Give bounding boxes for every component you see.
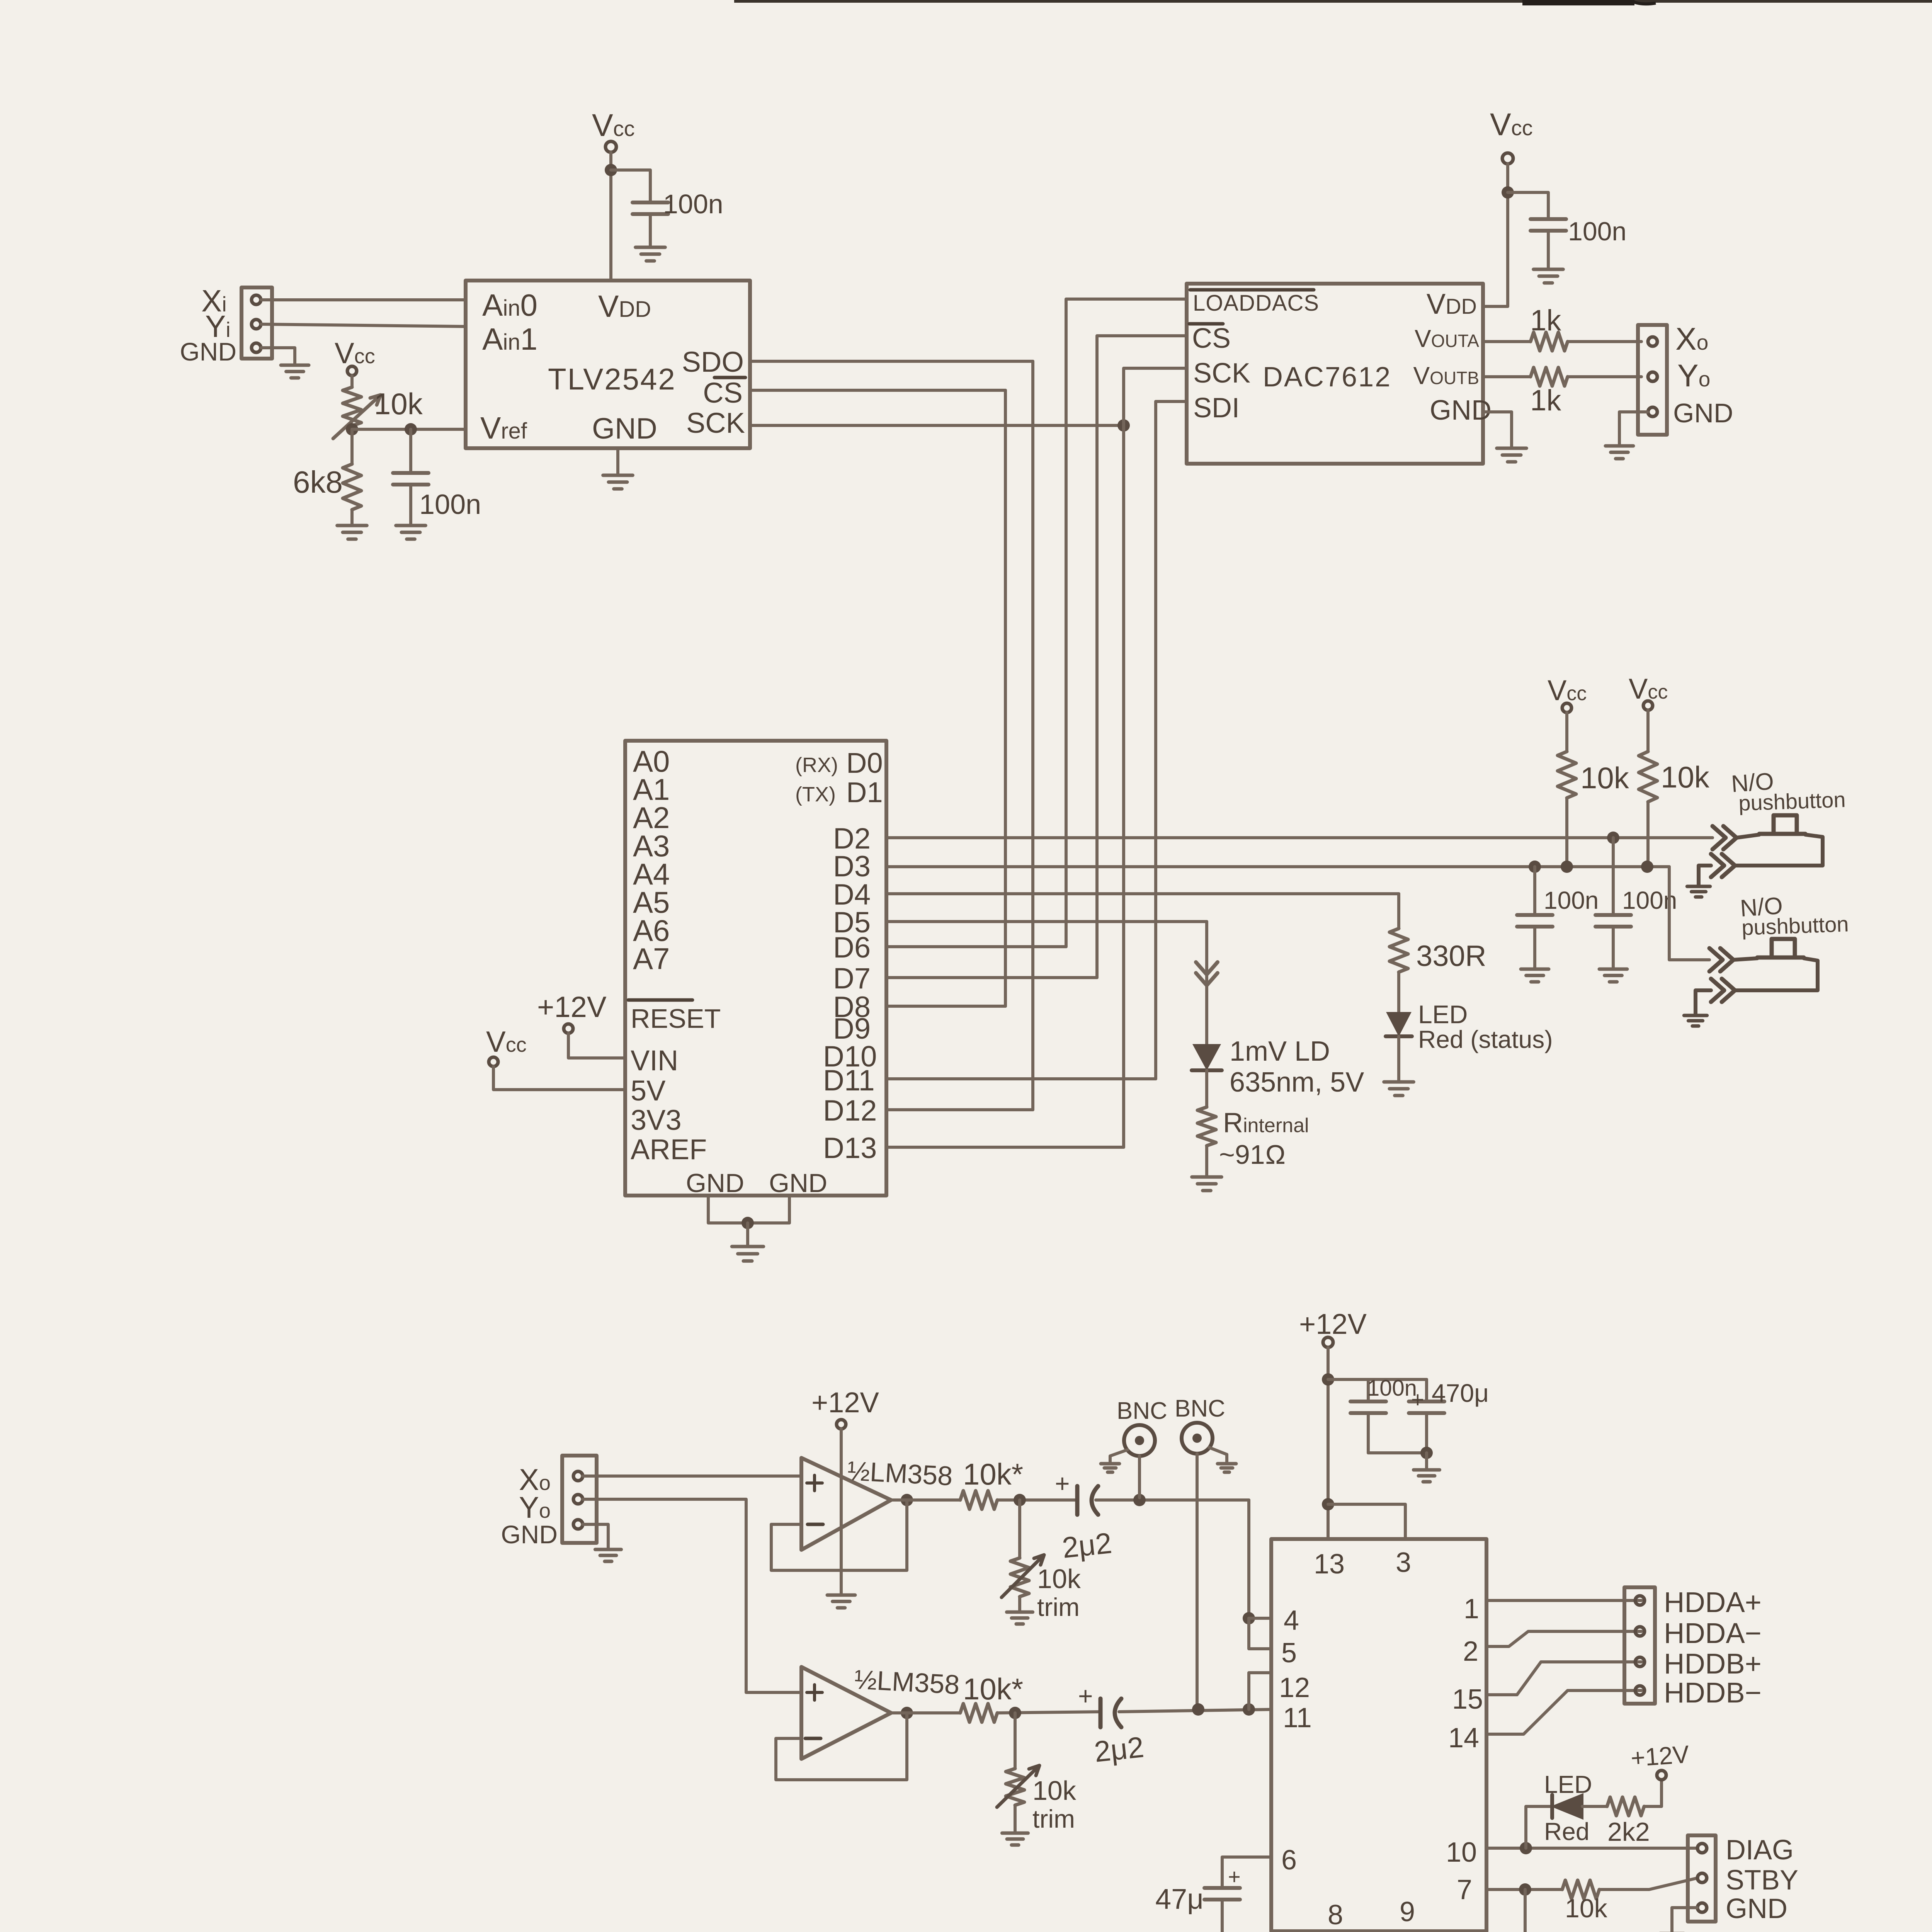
svg-text:100n: 100n	[1367, 1376, 1417, 1401]
wire U2 CS to D7	[1097, 336, 1187, 978]
svg-text:10k*: 10k*	[963, 1672, 1023, 1706]
svg-text:9: 9	[1400, 1896, 1415, 1927]
svg-text:D12: D12	[823, 1094, 877, 1127]
svg-text:STBY: STBY	[1726, 1865, 1798, 1896]
connector J2 Xo/Yo/GND out	[1638, 325, 1667, 435]
svg-text:14: 14	[1448, 1723, 1479, 1753]
wire D4 vertical	[1397, 894, 1400, 929]
capacitor C9 470u	[1425, 1379, 1428, 1401]
capacitor C6 2u2	[1075, 1486, 1080, 1515]
wire pin2 to HDDA-	[1486, 1631, 1641, 1646]
ground J2	[1605, 446, 1633, 459]
svg-text:trim: trim	[1037, 1593, 1080, 1621]
node opamp1 out	[901, 1494, 913, 1506]
connector arrow S2 return	[1711, 979, 1735, 1002]
svg-text:+: +	[1228, 1864, 1241, 1889]
svg-text:100n: 100n	[663, 189, 723, 219]
wire pins 8 9 ground	[1333, 1931, 1404, 1932]
wire U1 SCK to junction	[750, 424, 1124, 427]
ground caps	[1413, 1470, 1439, 1482]
wire J5 GND hook	[1672, 1908, 1697, 1932]
wire U3 GND pins	[708, 1196, 789, 1223]
connector J3 Xo/Yo/GND in	[562, 1456, 597, 1543]
wire S2 return	[1735, 958, 1818, 990]
svg-text:LOADDACS: LOADDACS	[1193, 291, 1319, 316]
connector J4 HDD	[1624, 1587, 1655, 1704]
wire cap branch	[1328, 1378, 1427, 1381]
wire Yo to opamp2	[583, 1499, 801, 1692]
wire Vcc to VDD U2	[1483, 164, 1508, 306]
svg-text:HDDB+: HDDB+	[1664, 1648, 1762, 1680]
wire D5 laser vertical	[1205, 922, 1208, 1045]
svg-text:+: +	[1411, 1387, 1424, 1412]
wire Xi to Ain0	[261, 298, 466, 301]
svg-text:BNC: BNC	[1175, 1395, 1225, 1422]
wire D6	[886, 945, 1066, 948]
svg-text:(TX): (TX)	[795, 783, 836, 806]
IC U1 TLV2542 box	[466, 281, 750, 448]
wire opamp1 feedback	[771, 1500, 907, 1570]
svg-text:RESET: RESET	[631, 1003, 721, 1034]
svg-text:D13: D13	[823, 1132, 877, 1165]
capacitor C5 100n debounce	[1607, 832, 1619, 844]
resistor R10 2k2	[1607, 1797, 1644, 1816]
svg-text:D1: D1	[846, 776, 883, 808]
svg-text:LED: LED	[1544, 1770, 1592, 1798]
svg-text:100n: 100n	[419, 489, 481, 520]
svg-text:HDDB−: HDDB−	[1664, 1677, 1762, 1709]
BNC connector X	[1124, 1425, 1155, 1456]
svg-text:+12V: +12V	[1299, 1308, 1367, 1340]
wire SCK vertical D13 to U2 SCK	[1124, 368, 1187, 1147]
node trim2	[1009, 1707, 1021, 1719]
wire U1 CS to bus	[750, 389, 1005, 392]
svg-text:2μ2: 2μ2	[1061, 1527, 1114, 1565]
svg-text:HDDA−: HDDA−	[1664, 1617, 1762, 1649]
svg-text:10k: 10k	[1037, 1564, 1081, 1594]
capacitor C4 100n debounce	[1529, 861, 1541, 873]
connector arrow D2 out	[1713, 826, 1736, 849]
wire +12V down to pin13	[1327, 1348, 1330, 1539]
wire Vref	[352, 428, 466, 431]
node 10u tap	[1519, 1883, 1531, 1896]
svg-text:GND: GND	[180, 337, 236, 366]
power +12V led	[1657, 1770, 1666, 1780]
svg-text:½LM358: ½LM358	[847, 1456, 953, 1491]
node pin3 branch	[1322, 1498, 1334, 1510]
svg-text:+: +	[1055, 1469, 1070, 1498]
resistor R7 10k pullup	[1646, 710, 1650, 752]
svg-text:13: 13	[1314, 1549, 1345, 1580]
svg-text:4: 4	[1284, 1605, 1299, 1636]
wire Y branch to pin12	[1249, 1673, 1271, 1709]
node trim1	[1014, 1494, 1026, 1506]
wire Xo to opamp1	[583, 1475, 801, 1478]
wire D13	[886, 1146, 1124, 1149]
svg-text:10μ: 10μ	[1546, 1930, 1588, 1932]
svg-text:trim: trim	[1032, 1804, 1075, 1833]
svg-text:Red: Red	[1544, 1818, 1589, 1845]
svg-text:pushbutton: pushbutton	[1738, 787, 1846, 815]
svg-text:15: 15	[1452, 1684, 1483, 1715]
svg-text:8: 8	[1328, 1900, 1343, 1930]
wire 10k to STBY	[1599, 1878, 1698, 1889]
ground J3	[595, 1549, 621, 1561]
ground C4	[1521, 969, 1549, 982]
wire S1 return	[1735, 835, 1823, 866]
resistor Rinternal	[1197, 1107, 1216, 1146]
IC U2 DAC7612 box	[1187, 284, 1483, 464]
ground U1 GND pin	[616, 448, 619, 474]
svg-text:D6: D6	[833, 931, 871, 964]
svg-text:3: 3	[1396, 1547, 1411, 1578]
wire to cap C3	[1508, 192, 1548, 218]
wire pin7 row	[1486, 1888, 1562, 1891]
svg-text:2μ2: 2μ2	[1093, 1731, 1146, 1769]
svg-text:10k*: 10k*	[963, 1457, 1023, 1491]
node BNC1 tap	[1133, 1494, 1146, 1506]
node pin11	[1243, 1703, 1255, 1716]
svg-text:HDDA+: HDDA+	[1664, 1586, 1762, 1618]
svg-text:1mV LD: 1mV LD	[1230, 1036, 1330, 1067]
svg-text:LED: LED	[1418, 1000, 1468, 1029]
svg-text:11: 11	[1283, 1702, 1312, 1733]
svg-text:6: 6	[1281, 1845, 1297, 1876]
svg-text:CS: CS	[703, 377, 743, 409]
node R6/D3	[1561, 861, 1573, 873]
svg-text:AREF: AREF	[631, 1133, 707, 1165]
wire D12	[886, 1108, 1033, 1111]
node +12V cap branch	[1322, 1373, 1334, 1386]
svg-text:~91Ω: ~91Ω	[1219, 1139, 1286, 1170]
capacitor C3 100n	[1531, 219, 1566, 231]
trimpot RV1 10k	[1018, 1500, 1021, 1558]
svg-text:+: +	[1078, 1682, 1093, 1710]
svg-text:SDI: SDI	[1193, 393, 1240, 423]
svg-text:SCK: SCK	[686, 407, 745, 439]
svg-text:5: 5	[1281, 1638, 1297, 1668]
ground 6k8	[337, 526, 367, 539]
wire D4 to 330R	[886, 892, 1399, 895]
LED D2red status	[1388, 1013, 1410, 1034]
svg-text:Red (status): Red (status)	[1418, 1026, 1553, 1053]
wire pin6 to 47u	[1222, 1857, 1271, 1887]
resistor R6 10k pullup	[1565, 713, 1568, 752]
arrow laser feed	[1196, 962, 1218, 985]
svg-text:+12V: +12V	[537, 991, 607, 1024]
wire U1 SDO to bus	[750, 360, 1033, 363]
op-amp U4A half LM358	[801, 1458, 891, 1550]
svg-text:6k8: 6k8	[293, 465, 343, 499]
wire D2 to pushbutton	[886, 836, 1713, 839]
svg-text:2k2: 2k2	[1607, 1817, 1650, 1847]
node U3 GND	[742, 1217, 754, 1229]
wire cap bottoms	[1368, 1451, 1427, 1454]
wire D7	[886, 976, 1097, 979]
node cap gnd	[1420, 1447, 1433, 1459]
wire D11	[886, 1077, 1156, 1080]
op-amp U4B half LM358	[801, 1667, 891, 1759]
svg-text:10k: 10k	[1565, 1894, 1608, 1923]
wire +12V to VIN	[568, 1033, 625, 1058]
svg-text:10k: 10k	[374, 387, 423, 421]
wire J1 GND stub	[261, 348, 295, 363]
wire bus SDO vertical to D12	[1031, 361, 1034, 1110]
resistor R9 10k*	[960, 1704, 997, 1722]
trimpot RV2 10k	[1014, 1713, 1017, 1769]
resistor R3 1k VoutA	[1483, 340, 1531, 343]
wire opamp2 feedback	[776, 1713, 907, 1780]
wire pin1 to HDDA+	[1486, 1599, 1641, 1602]
svg-text:VIN: VIN	[631, 1044, 678, 1077]
ground S1	[1687, 886, 1710, 897]
svg-text:(RX): (RX)	[795, 753, 838, 777]
wire D8	[886, 1005, 1005, 1008]
wire +12V through opamp1	[840, 1429, 843, 1594]
connector arrow S1 return	[1711, 854, 1735, 877]
connector arrow D3 out	[1709, 948, 1733, 971]
wire D5 to laser	[886, 920, 1207, 923]
svg-text:CS: CS	[1192, 323, 1231, 354]
wire J2 GND hook	[1619, 412, 1648, 444]
BNC connector Y	[1182, 1423, 1213, 1454]
svg-text:10k: 10k	[1661, 760, 1710, 794]
node pin4	[1243, 1612, 1255, 1624]
svg-text:D0: D0	[846, 747, 883, 779]
wire Y to IC	[1119, 1709, 1271, 1712]
resistor R11 10k	[1562, 1880, 1599, 1899]
ground U2	[1497, 448, 1527, 462]
node opamp2 out	[901, 1707, 913, 1719]
resistor 6k8	[350, 429, 354, 464]
svg-text:100n: 100n	[1568, 217, 1626, 246]
svg-text:5V: 5V	[631, 1075, 666, 1107]
svg-text:GND: GND	[501, 1520, 558, 1549]
wire bus CS vertical to D8	[1004, 390, 1007, 1006]
wire U2 SDI to D11	[1156, 401, 1187, 1079]
node LED branch	[1520, 1842, 1532, 1854]
wire to pin3	[1328, 1504, 1405, 1539]
wire Vcc to 5V	[493, 1066, 625, 1090]
LED D3red diag	[1554, 1795, 1582, 1818]
svg-text:GND: GND	[686, 1168, 744, 1198]
wire to cap C1	[611, 170, 650, 202]
svg-text:SCK: SCK	[1193, 358, 1250, 389]
svg-text:100n: 100n	[1544, 886, 1599, 914]
ground C2	[396, 526, 426, 539]
ground RV2	[1002, 1833, 1028, 1845]
laser diode LD1	[1194, 1045, 1219, 1068]
wire D3 row	[886, 865, 1669, 868]
svg-text:GND: GND	[592, 412, 657, 445]
ground S2	[1684, 1015, 1707, 1026]
svg-text:1: 1	[1464, 1594, 1479, 1624]
wire Vcc to VDD	[609, 152, 612, 281]
svg-text:10: 10	[1446, 1837, 1477, 1868]
svg-text:GND: GND	[1726, 1893, 1787, 1924]
ground C5	[1599, 969, 1627, 982]
resistor R5 330R	[1389, 929, 1408, 972]
svg-text:470μ: 470μ	[1432, 1379, 1489, 1407]
capacitor C7 2u2	[1099, 1699, 1103, 1727]
wire pin14 to HDDB-	[1486, 1690, 1641, 1734]
ground C1	[636, 247, 665, 261]
wire opamp1 out	[891, 1498, 960, 1502]
node R7/D3	[1641, 861, 1653, 873]
wire U2 LOADDACS to D6	[1066, 299, 1187, 947]
svg-text:+12V: +12V	[1630, 1740, 1690, 1772]
wire U2 GND	[1483, 412, 1512, 447]
capacitor C2 100n	[409, 429, 412, 472]
svg-text:GND: GND	[1430, 395, 1492, 426]
capacitor C11 47u	[1204, 1888, 1240, 1900]
svg-text:7: 7	[1457, 1874, 1472, 1905]
svg-text:10k: 10k	[1032, 1776, 1077, 1806]
ground J1	[281, 365, 309, 378]
pushbutton S1 N/O	[1736, 835, 1759, 838]
capacitor C1 100n	[633, 202, 668, 214]
wire pin10 to DIAG	[1486, 1847, 1698, 1850]
wire X branch to pins 4/5	[1247, 1500, 1250, 1618]
svg-text:½LM358: ½LM358	[854, 1664, 960, 1700]
IC U3 microcontroller box	[625, 741, 886, 1196]
svg-text:1k: 1k	[1530, 304, 1561, 337]
svg-text:10k: 10k	[1580, 761, 1629, 795]
wire pin15 to HDDB+	[1486, 1662, 1641, 1695]
svg-text:47μ: 47μ	[1155, 1883, 1204, 1915]
svg-text:D7: D7	[833, 962, 871, 995]
svg-text:BNC: BNC	[1117, 1398, 1167, 1424]
svg-text:D11: D11	[823, 1064, 875, 1097]
svg-text:GND: GND	[1673, 398, 1733, 428]
svg-text:A7: A7	[633, 942, 670, 976]
connector J1 Xi/Yi/GND	[241, 287, 272, 359]
resistor R8 10k*	[960, 1491, 997, 1509]
svg-text:TLV2542: TLV2542	[548, 362, 676, 396]
node Vcc DAC cap	[1502, 186, 1514, 199]
svg-text:330R: 330R	[1416, 940, 1486, 973]
svg-text:12: 12	[1279, 1672, 1310, 1703]
svg-text:GND: GND	[769, 1168, 827, 1198]
svg-text:pushbutton: pushbutton	[1741, 912, 1849, 940]
svg-text:3V3: 3V3	[631, 1104, 682, 1136]
wire opamp2 out	[891, 1711, 960, 1714]
ground C3	[1534, 269, 1563, 283]
resistor R4 1k VoutB	[1483, 375, 1531, 378]
ground RV1	[1007, 1612, 1032, 1624]
svg-text:SDO: SDO	[682, 346, 744, 378]
node SCK junction	[1117, 419, 1130, 432]
ground opamp1	[827, 1595, 855, 1608]
node BNC2 tap	[1192, 1703, 1204, 1716]
capacitor C8 100n	[1367, 1379, 1370, 1401]
svg-text:2: 2	[1463, 1636, 1478, 1667]
svg-text:DIAG: DIAG	[1726, 1835, 1794, 1866]
wire J3 GND stub	[583, 1524, 608, 1548]
scan edge strip top	[734, 0, 1932, 3]
svg-text:635nm, 5V: 635nm, 5V	[1230, 1067, 1364, 1098]
connector J5 DIAG/STBY/GND	[1688, 1835, 1716, 1922]
node Vcc/cap junction	[605, 164, 617, 176]
ground U3	[732, 1247, 764, 1261]
capacitor C10 10u	[1524, 1889, 1527, 1932]
svg-text:+12V: +12V	[811, 1386, 879, 1418]
svg-text:1k: 1k	[1530, 384, 1561, 417]
IC U5 driver box	[1271, 1539, 1486, 1931]
node Vref/pot	[346, 423, 358, 435]
node Vref/cap C2	[405, 423, 417, 435]
svg-text:DAC7612: DAC7612	[1263, 362, 1391, 393]
wire D3 to S2	[1669, 867, 1709, 960]
wire LED branch	[1526, 1806, 1552, 1848]
wire X to IC	[1096, 1498, 1249, 1502]
ground LED status	[1384, 1082, 1414, 1095]
pushbutton S2 N/O	[1733, 958, 1757, 960]
ground laser	[1192, 1177, 1222, 1190]
wire Yi to Ain1	[261, 324, 466, 327]
